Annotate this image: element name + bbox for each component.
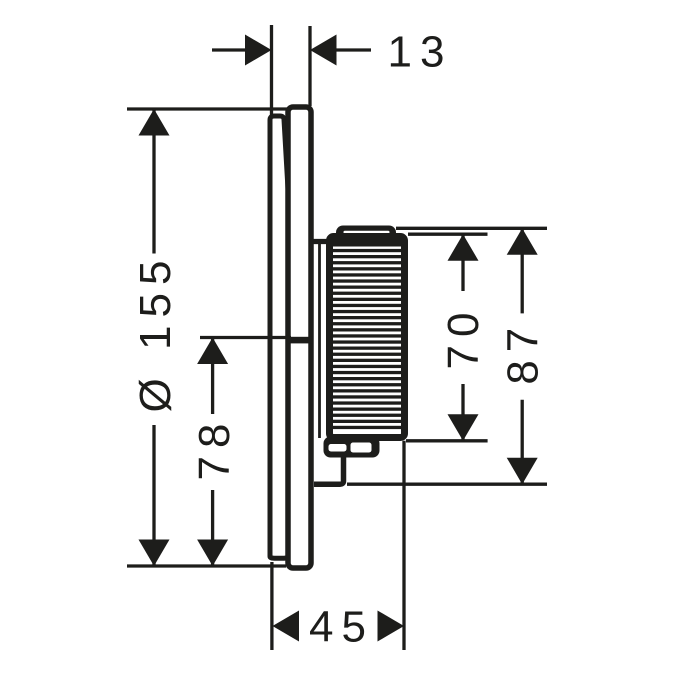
dim line 87 upper segment xyxy=(521,228,524,313)
wall plate back slab xyxy=(270,116,290,558)
extension line bottom-left horizontal xyxy=(127,564,286,567)
band slot left xyxy=(329,444,347,452)
arrowhead 87 top xyxy=(507,228,538,255)
svg-text:78: 78 xyxy=(190,416,239,481)
handle body xyxy=(330,237,405,438)
arrowhead D155 top xyxy=(139,109,170,136)
handle top cap slit xyxy=(344,231,390,234)
arrowhead 45 left xyxy=(273,611,300,642)
dim line 70 upper segment xyxy=(461,234,464,291)
dim line 78 upper segment xyxy=(211,338,214,415)
extension line 13 right xyxy=(308,26,311,106)
arrowhead 70 top xyxy=(448,234,479,261)
dim leader 13 left xyxy=(212,48,248,51)
arrowhead D155 bottom xyxy=(139,540,170,567)
arrowhead 13 right xyxy=(310,35,337,66)
valve stem xyxy=(314,453,344,484)
handle grip ribs xyxy=(331,239,402,429)
dim line 87 lower segment xyxy=(521,400,524,484)
svg-text:13: 13 xyxy=(388,28,453,77)
svg-text:Ø 155: Ø 155 xyxy=(131,253,180,413)
dim line D155 lower segment xyxy=(152,425,155,566)
dim line 70 lower segment xyxy=(461,384,464,441)
handle sleeve line xyxy=(318,239,321,438)
extension line middle pointer xyxy=(200,336,291,339)
extension line body top horizontal xyxy=(408,233,488,236)
svg-text:87: 87 xyxy=(499,320,548,385)
dim leader 13 right xyxy=(335,48,371,51)
cartridge hub stub xyxy=(288,337,313,344)
svg-text:70: 70 xyxy=(439,305,488,370)
dim line 78 lower segment xyxy=(211,490,214,566)
arrowhead 13 left xyxy=(245,35,272,66)
arrowhead 87 bottom xyxy=(507,458,538,485)
extension line 45 right vertical xyxy=(402,441,405,650)
extension line 45 left vertical xyxy=(270,562,273,650)
extension line 13 left xyxy=(270,25,273,116)
extension line cap top horizontal xyxy=(396,227,547,230)
wall plate front slab xyxy=(288,107,311,568)
handle sleeve top stub xyxy=(312,239,330,244)
extension line top-left horizontal xyxy=(127,107,288,110)
dim line D155 upper segment xyxy=(152,109,155,254)
arrowhead 78 top xyxy=(197,338,228,365)
arrowhead 78 bottom xyxy=(197,540,228,567)
extension line 87 bottom horizontal xyxy=(347,483,547,486)
arrowhead 70 bottom xyxy=(448,414,479,441)
arrowhead 45 right xyxy=(378,611,405,642)
handle top cap xyxy=(336,226,396,248)
handle bottom band xyxy=(324,437,380,458)
svg-text:45: 45 xyxy=(309,603,374,652)
extension line 70 bottom horizontal xyxy=(406,439,488,442)
band slot right xyxy=(351,443,372,453)
